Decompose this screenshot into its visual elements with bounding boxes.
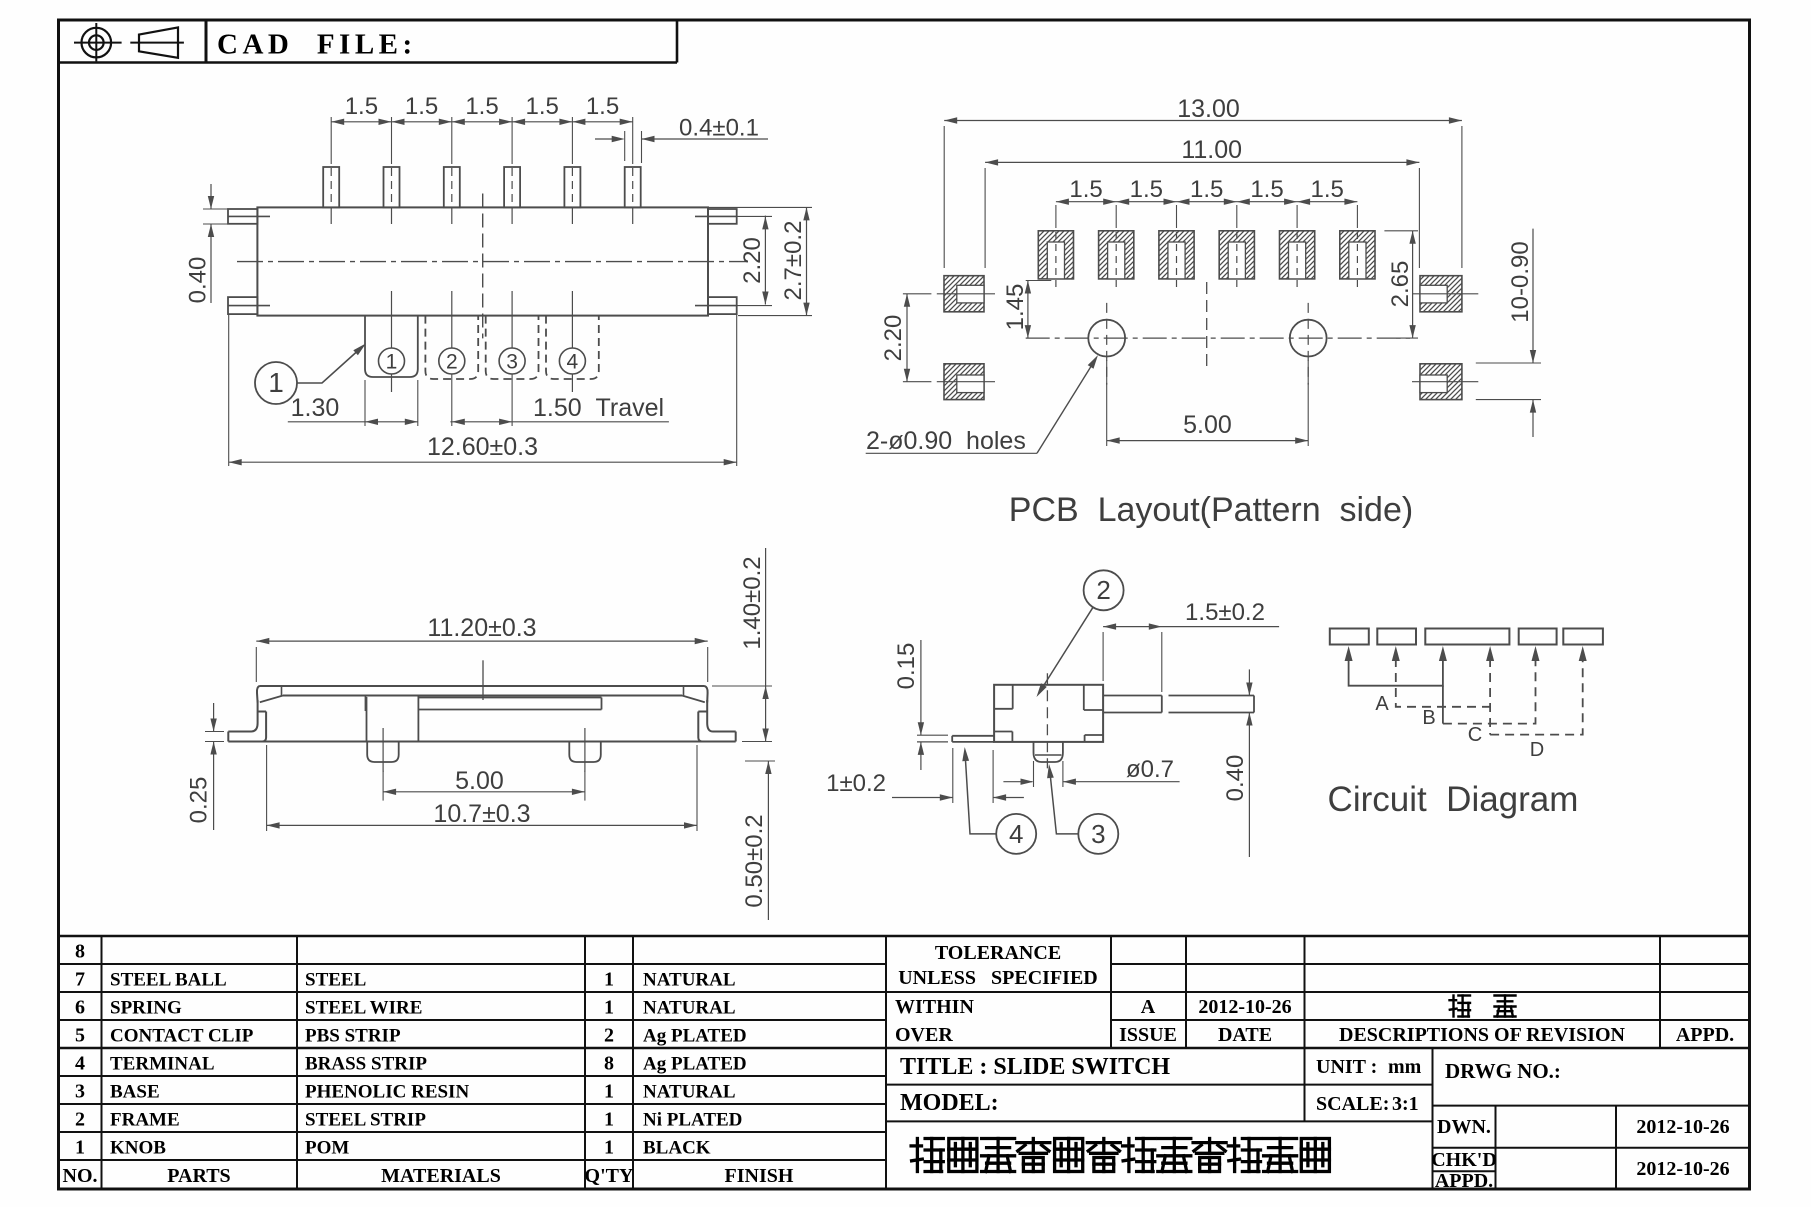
svg-text:2012-10-26: 2012-10-26: [1198, 996, 1291, 1018]
top view: switch body outline: [257, 207, 708, 315]
dimension: 1.30 slot width: [364, 380, 366, 426]
svg-text:2.20: 2.20: [880, 315, 907, 362]
svg-text:10.7±0.3: 10.7±0.3: [433, 800, 530, 828]
top view: terminal pin 3: [444, 167, 460, 207]
svg-text:KNOB: KNOB: [110, 1138, 166, 1159]
svg-text:8: 8: [75, 941, 85, 963]
svg-text:11.00: 11.00: [1181, 136, 1242, 164]
top view: right lower mounting tab: [708, 297, 737, 314]
svg-text:STEEL BALL: STEEL BALL: [110, 970, 227, 991]
circuit: wire B (dashed) pins 3-5: [1443, 658, 1536, 724]
top view: terminal pin 2: [384, 167, 400, 207]
table: company name (Chinese): [911, 1139, 943, 1172]
balloon 3 with leader: [1078, 814, 1118, 854]
svg-text:5: 5: [75, 1025, 85, 1047]
PCB pad 4 (hatched): [1219, 231, 1254, 279]
svg-text:12.60±0.3: 12.60±0.3: [427, 433, 538, 461]
svg-text:NATURAL: NATURAL: [643, 998, 736, 1019]
PCB mounting hole right: [1290, 320, 1327, 357]
svg-text:2.7±0.2: 2.7±0.2: [780, 221, 807, 301]
svg-text:1.5: 1.5: [405, 93, 438, 120]
svg-text:1.5±0.2: 1.5±0.2: [1185, 599, 1265, 626]
svg-text:5.00: 5.00: [455, 767, 504, 795]
svg-text:FINISH: FINISH: [725, 1165, 794, 1187]
top view: terminal pin 1: [323, 167, 339, 207]
svg-text:Ag PLATED: Ag PLATED: [643, 1054, 747, 1075]
svg-text:APPD.: APPD.: [1435, 1170, 1493, 1192]
top view: position number 2 balloon: [439, 348, 465, 374]
PCB pad 3 (hatched): [1159, 231, 1194, 279]
top view: contact slot position 3 (dashed): [486, 316, 539, 379]
dimension: 10-0.90 pads: [1476, 362, 1541, 364]
side view: internal base block: [365, 696, 367, 712]
svg-text:OVER: OVER: [895, 1024, 953, 1046]
svg-text:MATERIALS: MATERIALS: [381, 1165, 501, 1187]
svg-text:BLACK: BLACK: [643, 1138, 711, 1159]
svg-text:PARTS: PARTS: [167, 1165, 230, 1187]
top view: contact slot position 1 (solid): [365, 316, 418, 377]
dimension: 0.25 foot thickness: [205, 731, 224, 733]
top view: contact slot position 4 (dashed): [546, 316, 599, 379]
svg-text:2-ø0.90 holes: 2-ø0.90 holes: [866, 427, 1026, 455]
PCB pad 2 (hatched): [1099, 231, 1134, 279]
svg-text:TITLE : SLIDE SWITCH: TITLE : SLIDE SWITCH: [900, 1054, 1170, 1080]
PCB horizontal centerline: [1026, 337, 1410, 339]
dimension: 2.20 tab spacing (right): [737, 215, 772, 217]
svg-text:0.25: 0.25: [186, 777, 213, 824]
svg-text:DWN.: DWN.: [1437, 1116, 1491, 1138]
dimension: 0.40 knob thickness: [1248, 669, 1250, 695]
side view: locating boss left: [367, 742, 399, 763]
dimension: 0.50±0.2 boss height: [745, 760, 775, 762]
dimension: 10.7±0.3: [266, 745, 268, 831]
top view: position number 3 balloon: [499, 348, 525, 374]
svg-text:NATURAL: NATURAL: [643, 970, 736, 991]
svg-text:8: 8: [604, 1053, 614, 1075]
svg-text:POM: POM: [305, 1138, 349, 1159]
top view: right upper mounting tab: [708, 209, 737, 224]
svg-text:1: 1: [75, 1137, 85, 1159]
svg-text:2: 2: [446, 351, 458, 374]
svg-text:3:1: 3:1: [1392, 1093, 1419, 1115]
svg-text:0.15: 0.15: [893, 643, 920, 690]
svg-text:CHK'D: CHK'D: [1431, 1149, 1497, 1171]
PCB corner pad left-top (hatched): [944, 276, 984, 312]
circuit: terminal pad 5: [1563, 629, 1603, 645]
svg-text:2012-10-26: 2012-10-26: [1636, 1158, 1729, 1180]
dimension: 1.50 Travel: [450, 421, 669, 423]
table: grid lines: [59, 935, 1750, 937]
svg-text:STEEL STRIP: STEEL STRIP: [305, 1110, 426, 1131]
svg-text:1.5: 1.5: [465, 93, 498, 120]
section: strip extension stubs: [917, 734, 948, 736]
section: terminal strip left: [952, 735, 994, 737]
svg-text:STEEL: STEEL: [305, 970, 366, 991]
dimension: 0.40 tab height (left): [203, 208, 232, 210]
dimension: 5.00 hole spacing: [1106, 360, 1108, 446]
side view: right body wall and jog: [706, 700, 708, 712]
top view: terminal pin 4: [504, 167, 520, 207]
top view: terminal pin 6: [625, 167, 641, 207]
section: knob shaft piece A: [1103, 695, 1162, 697]
svg-text:TERMINAL: TERMINAL: [110, 1054, 215, 1075]
svg-text:1±0.2: 1±0.2: [826, 770, 886, 797]
section: center pin: [1034, 742, 1063, 762]
svg-text:1.30: 1.30: [291, 394, 340, 422]
dimension: 5.00 boss spacing: [382, 771, 384, 801]
section: knob shaft piece B: [1169, 695, 1255, 697]
svg-text:UNIT :: UNIT :: [1316, 1056, 1377, 1078]
svg-text:4: 4: [75, 1053, 85, 1075]
title strip: CAD FILE box: [59, 61, 678, 64]
svg-text:mm: mm: [1388, 1056, 1422, 1078]
top view: part balloon 1 with leader: [255, 362, 297, 404]
svg-text:A: A: [1375, 693, 1389, 715]
svg-text:1: 1: [268, 367, 284, 398]
svg-text:1.40±0.2: 1.40±0.2: [739, 556, 766, 649]
svg-text:13.00: 13.00: [1177, 95, 1240, 123]
top view: position number 1 balloon: [379, 348, 405, 374]
dimension: 2.20 corner pads: [903, 293, 932, 295]
svg-text:Ni PLATED: Ni PLATED: [643, 1110, 742, 1131]
svg-text:WITHIN: WITHIN: [895, 996, 974, 1018]
side view: vertical center mark: [482, 660, 484, 700]
dimension: 0.15 strip thickness: [920, 640, 922, 722]
svg-text:2012-10-26: 2012-10-26: [1636, 1116, 1729, 1138]
dimension: 13.00 overall: [943, 126, 945, 268]
svg-text:1: 1: [604, 1109, 614, 1131]
svg-text:1.5: 1.5: [1190, 176, 1223, 203]
section: vertical centerline: [1046, 673, 1048, 768]
dimension: 2.65: [1384, 230, 1418, 232]
side view: cover slab outline: [260, 685, 705, 687]
circuit: wire pos1 (solid) pins 1-3: [1349, 658, 1443, 686]
circuit: contact arrows: [1345, 646, 1353, 661]
svg-text:ISSUE: ISSUE: [1119, 1024, 1177, 1046]
circuit: wire C (dashed) pins 4-6: [1490, 658, 1583, 735]
svg-text:3: 3: [506, 351, 518, 374]
svg-text:UNLESS SPECIFIED: UNLESS SPECIFIED: [898, 967, 1098, 989]
svg-text:2.20: 2.20: [739, 237, 766, 284]
side view: left body wall and jog: [257, 700, 259, 712]
svg-text:B: B: [1422, 707, 1435, 729]
svg-text:1.5: 1.5: [345, 93, 378, 120]
svg-text:SPRING: SPRING: [110, 998, 182, 1019]
svg-text:1: 1: [604, 997, 614, 1019]
svg-text:5.00: 5.00: [1183, 411, 1232, 439]
svg-text:2: 2: [604, 1025, 614, 1047]
svg-text:DRWG NO.:: DRWG NO.:: [1445, 1059, 1561, 1083]
svg-text:3: 3: [75, 1081, 85, 1103]
svg-text:ø0.7: ø0.7: [1126, 756, 1174, 783]
dimension: 11.20±0.3: [255, 647, 257, 682]
PCB pad 6 (hatched): [1340, 231, 1375, 279]
svg-text:C: C: [1468, 724, 1482, 746]
svg-text:PBS STRIP: PBS STRIP: [305, 1026, 401, 1047]
svg-text:1: 1: [604, 1081, 614, 1103]
dimension: 1.40±0.2 height: [712, 685, 772, 687]
svg-text:TOLERANCE: TOLERANCE: [935, 942, 1061, 964]
svg-text:PCB Layout(Pattern side): PCB Layout(Pattern side): [1009, 491, 1413, 529]
svg-text:1: 1: [604, 969, 614, 991]
svg-text:0.50±0.2: 0.50±0.2: [741, 814, 768, 907]
side view: left solder foot: [228, 731, 251, 733]
svg-text:BASE: BASE: [110, 1082, 160, 1103]
svg-text:1.5: 1.5: [586, 93, 619, 120]
section: block top-right step: [1083, 685, 1085, 710]
svg-text:1.50 Travel: 1.50 Travel: [533, 394, 664, 422]
PCB mounting hole left: [1088, 320, 1125, 357]
svg-text:1.5: 1.5: [1130, 176, 1163, 203]
PCB pad 5 (hatched): [1280, 231, 1315, 279]
svg-text:1.5: 1.5: [526, 93, 559, 120]
svg-text:STEEL WIRE: STEEL WIRE: [305, 998, 422, 1019]
svg-text:1.5: 1.5: [1069, 176, 1102, 203]
side view: internal terminal strip: [418, 697, 601, 699]
PCB pad 1 (hatched): [1038, 231, 1073, 279]
svg-text:4: 4: [1009, 819, 1023, 849]
svg-text:PHENOLIC RESIN: PHENOLIC RESIN: [305, 1082, 469, 1103]
section: block top-left step: [1012, 685, 1014, 709]
dimension: pad pitch 1.5 x5: [1056, 201, 1358, 203]
svg-text:2: 2: [1096, 575, 1110, 605]
side view: body bottom edge: [228, 741, 735, 743]
svg-text:DATE: DATE: [1218, 1024, 1272, 1046]
svg-text:6: 6: [75, 997, 85, 1019]
dimension: pin pitch 1.5 x5 row: [331, 121, 633, 123]
top view: vertical center mark: [482, 194, 484, 339]
svg-text:A: A: [1141, 996, 1156, 1018]
svg-text:3: 3: [1091, 819, 1105, 849]
balloon 2 with leader: [1084, 570, 1124, 610]
svg-text:Ag PLATED: Ag PLATED: [643, 1026, 747, 1047]
svg-text:SCALE:: SCALE:: [1316, 1093, 1389, 1115]
circuit: terminal pad 4: [1519, 629, 1557, 645]
svg-text:1: 1: [386, 351, 398, 374]
PCB corner pad right-bottom (hatched): [1420, 364, 1462, 400]
section: block bottom-left step: [994, 731, 1012, 733]
svg-text:APPD.: APPD.: [1676, 1024, 1734, 1046]
svg-text:1.5: 1.5: [1250, 176, 1283, 203]
top view: left upper mounting tab: [228, 209, 257, 224]
svg-text:DESCRIPTIONS OF REVISION: DESCRIPTIONS OF REVISION: [1339, 1024, 1626, 1046]
dimension: 12.60±0.3 overall width: [228, 314, 230, 466]
svg-text:FRAME: FRAME: [110, 1110, 180, 1131]
svg-text:NO.: NO.: [63, 1165, 98, 1187]
circuit: common pad (wide): [1425, 629, 1509, 645]
svg-text:10-0.90: 10-0.90: [1507, 241, 1534, 322]
svg-text:2.65: 2.65: [1387, 261, 1414, 308]
PCB vertical center mark: [1206, 282, 1208, 369]
svg-text:CAD FILE:: CAD FILE:: [217, 29, 417, 61]
svg-text:CONTACT CLIP: CONTACT CLIP: [110, 1026, 254, 1047]
svg-text:4: 4: [567, 351, 579, 374]
side view: locating boss right: [569, 742, 601, 763]
projection cone symbol: [130, 42, 184, 44]
circuit: wire A (dashed) pins 2-4: [1396, 658, 1490, 707]
svg-text:0.40: 0.40: [1222, 755, 1249, 802]
dimension: 1.45: [1026, 280, 1052, 282]
side view: right solder foot: [713, 731, 736, 733]
svg-text:1: 1: [604, 1137, 614, 1159]
svg-text:Circuit Diagram: Circuit Diagram: [1328, 780, 1579, 819]
section: switch body block: [994, 685, 1103, 742]
dimension: 11.00: [984, 168, 986, 268]
table: revision description (Chinese): [1450, 996, 1471, 1017]
svg-text:1.5: 1.5: [1311, 176, 1344, 203]
balloon 4 with leader: [996, 814, 1036, 854]
circuit: terminal pad 2: [1377, 629, 1416, 645]
top view: terminal pin 5: [564, 167, 580, 207]
section: block bottom-right step: [1085, 734, 1104, 736]
svg-text:BRASS STRIP: BRASS STRIP: [305, 1054, 427, 1075]
svg-text:7: 7: [75, 969, 85, 991]
PCB corner pad right-top (hatched): [1420, 276, 1462, 312]
svg-text:11.20±0.3: 11.20±0.3: [427, 614, 536, 642]
circuit: terminal pad 1: [1330, 629, 1369, 645]
svg-text:NATURAL: NATURAL: [643, 1082, 736, 1103]
svg-text:0.4±0.1: 0.4±0.1: [679, 115, 759, 142]
svg-text:D: D: [1530, 739, 1544, 761]
svg-text:Q'TY: Q'TY: [585, 1165, 634, 1187]
first-angle projection symbol circle: [82, 28, 112, 58]
top view: position number 4 balloon: [559, 348, 585, 374]
PCB corner pad left-bottom (hatched): [944, 364, 984, 400]
top view: horizontal centerline: [237, 261, 748, 263]
top view: left lower mounting tab: [228, 297, 257, 314]
dimension: 2.7±0.2 body height: [709, 206, 812, 208]
svg-text:1.45: 1.45: [1002, 284, 1029, 331]
svg-text:2: 2: [75, 1109, 85, 1131]
top view: contact slot position 2 (dashed): [425, 316, 478, 379]
svg-text:MODEL:: MODEL:: [900, 1090, 999, 1116]
svg-text:0.40: 0.40: [185, 257, 212, 304]
